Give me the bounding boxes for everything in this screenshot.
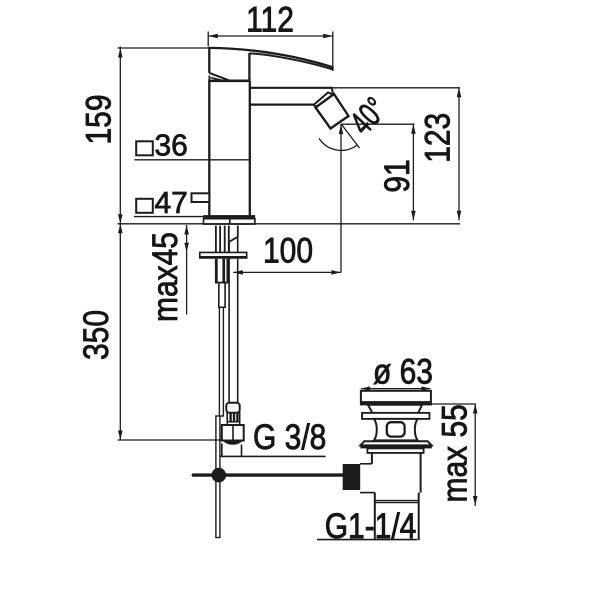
fitting thin band [227,422,240,425]
arrow 159 bottom [118,214,123,224]
arrow 123 top [457,88,462,98]
faucet lever front edge [248,53,250,81]
drain locking ring disk [362,413,430,419]
dimension 91 [342,123,415,125]
drain lower flange [360,441,431,445]
arrow 350 top [118,224,123,234]
faucet lever handle top curve [209,48,333,67]
svg-text:350: 350 [76,310,116,360]
nozzle axis vertical line [340,124,342,273]
svg-text:G 3/8: G 3/8 [253,417,326,457]
svg-text:47: 47 [155,185,188,219]
leader line under square47 [134,216,204,218]
svg-text:max 55: max 55 [434,404,474,502]
drain body upper stub [367,448,423,453]
nozzle tick [331,88,334,94]
arrow dia63 left [361,386,370,390]
spout arm top line and 123 extension [250,87,460,89]
leader line under square36 [134,159,249,161]
arrow 100 left [233,270,243,275]
faucet body right edge [249,81,251,216]
shank bottom cap [215,282,229,284]
arrow max45 top [184,225,189,235]
junction dot [212,468,227,483]
faucet lever underside sliver [210,78,224,81]
drain waist [374,419,418,441]
faucet lever underside diagonal [209,73,228,80]
arrow dia63 right [421,386,430,390]
dimension max55 [423,403,476,405]
svg-text:G1-1/4: G1-1/4 [325,506,417,546]
40deg arc [319,138,357,150]
svg-text:112: 112 [246,0,294,39]
nozzle tilted square [316,94,349,129]
G3/8 nut [222,425,244,441]
horizontal operating rod [193,473,343,476]
dimension dia63 line [361,388,430,390]
square symbol 47 [136,199,153,213]
mounting washer [200,252,247,259]
shank lower dark bars [215,259,218,283]
drain side hole [387,422,405,436]
faucet lever bottom curve [249,53,332,69]
nozzle flange bar [314,93,334,108]
shank vertical lines [215,226,217,253]
black connector block [343,464,361,490]
fitting knurled section [227,413,240,422]
arrow 40deg vertex [339,124,343,134]
drain body left edge [371,453,373,464]
arrow max45 bottom [184,243,189,253]
leader line under G3/8 [220,455,326,457]
faucet lever top extension line [118,47,210,49]
arrow max55 bottom [473,496,478,506]
arrow max55 top [473,404,478,414]
svg-text:159: 159 [78,94,118,144]
spout arm top edge thick [250,87,333,89]
base plate dark top band [203,215,255,219]
pop-up rod lower segment [216,416,220,538]
svg-text:36: 36 [155,128,188,162]
svg-text:123: 123 [417,113,457,163]
arrow 91 bottom [411,211,416,221]
square symbol 36 [136,141,153,155]
dimension 100 line [233,271,341,273]
G3/8 nut dark rounded bottom [222,440,244,445]
arrow 91 top [411,124,416,134]
faucet body left edge [208,81,210,216]
base plate lower outline [204,219,255,224]
faucet body top edge [208,80,250,83]
nut lower collar sides [221,444,223,457]
svg-text:100: 100 [263,230,313,270]
supply pipe stub with break cut [237,226,239,237]
arrow 112 left [208,34,218,39]
pop-up rod upper sleeve [219,283,225,308]
compression olive collar [226,403,239,413]
spout arm bottom edge [250,103,314,105]
drain neck [368,405,422,413]
copper tail pipe [228,242,230,403]
base plate center divider [229,219,231,224]
svg-text:91: 91 [377,159,417,192]
arrow 350 bottom [118,431,123,441]
small rectangle on body left [192,193,210,202]
svg-text:max45: max45 [145,232,185,322]
drain body ledge to block [360,463,372,465]
dimension 350 bottom extension [118,439,222,441]
drain top flange [361,391,431,405]
svg-text:ø 63: ø 63 [373,351,433,391]
arrow 100 right [331,270,341,275]
lever blunt tip [331,66,333,70]
dimension max45 line [186,225,188,315]
dimension 123 [458,88,460,221]
faucet lever back notch [208,76,210,81]
arrow 159 top [118,48,123,58]
leader line under G1-1/4 [317,539,417,541]
drain body bottom ledge [360,492,375,494]
arrow 112 right [323,34,333,39]
deck extension line [118,223,461,225]
faucet lever back edge [208,47,210,73]
nozzle axis 40deg line [341,124,360,148]
drain tailpipe [374,493,376,541]
pop-up rod middle segment [219,307,223,416]
drain body right edge [420,453,422,493]
dimension 159-350 vertical line [119,47,121,441]
arrow 123 bottom [457,211,462,221]
dimension 112 line [208,35,333,37]
